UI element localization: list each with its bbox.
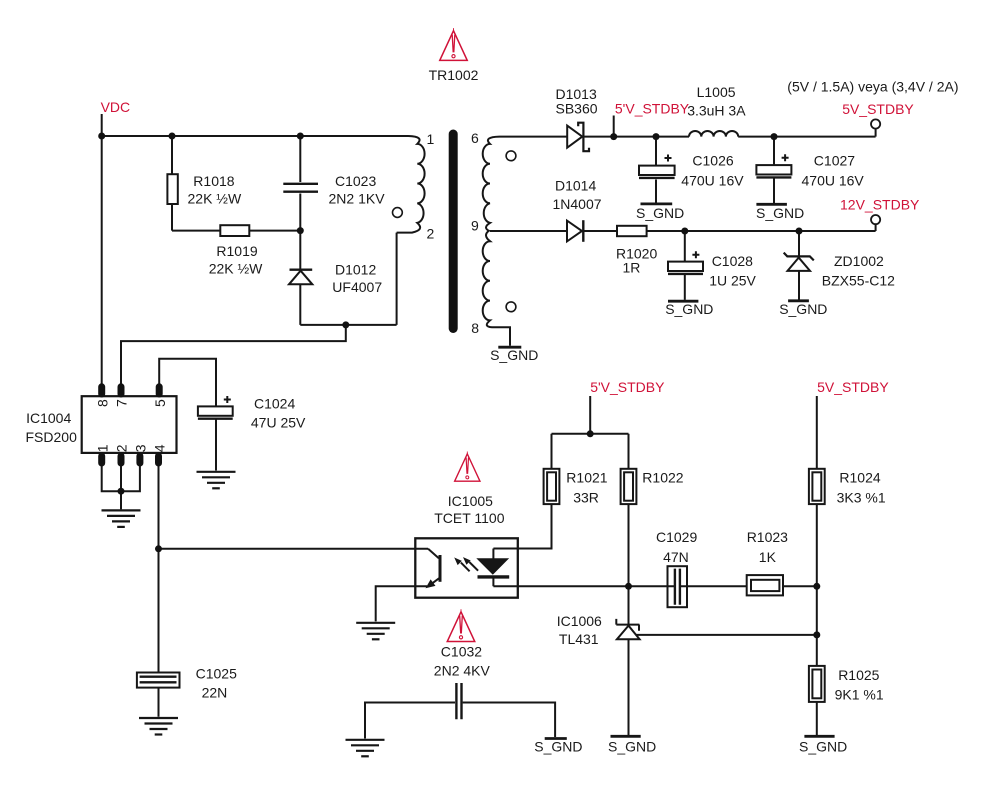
svg-text:4: 4 (151, 444, 167, 452)
svg-text:(5V / 1.5A) veya (3,4V / 2A): (5V / 1.5A) veya (3,4V / 2A) (787, 79, 958, 95)
svg-text:SB360: SB360 (556, 100, 598, 116)
svg-text:C1024: C1024 (254, 396, 295, 412)
svg-text:1: 1 (427, 131, 435, 147)
svg-text:TCET 1100: TCET 1100 (434, 510, 505, 526)
svg-text:5: 5 (152, 399, 168, 407)
svg-text:L1005: L1005 (697, 84, 736, 100)
svg-text:S_GND: S_GND (608, 739, 656, 755)
svg-text:5V_STDBY: 5V_STDBY (817, 379, 889, 395)
svg-text:R1023: R1023 (747, 529, 788, 545)
svg-text:D1014: D1014 (555, 178, 596, 194)
svg-text:1R: 1R (623, 260, 641, 276)
svg-text:S_GND: S_GND (490, 347, 538, 363)
svg-text:R1025: R1025 (838, 667, 879, 683)
svg-text:22N: 22N (202, 685, 228, 701)
svg-text:470U 16V: 470U 16V (802, 173, 865, 189)
svg-text:22K ½W: 22K ½W (188, 191, 242, 207)
svg-text:5V_STDBY: 5V_STDBY (842, 101, 914, 117)
svg-text:R1024: R1024 (839, 470, 880, 486)
svg-text:S_GND: S_GND (636, 205, 684, 221)
svg-text:2N2 4KV: 2N2 4KV (434, 662, 491, 678)
svg-text:22K ½W: 22K ½W (209, 261, 263, 277)
svg-text:1K: 1K (759, 549, 777, 565)
svg-text:TR1002: TR1002 (429, 67, 479, 83)
svg-text:2: 2 (114, 444, 130, 452)
svg-text:S_GND: S_GND (799, 739, 847, 755)
svg-text:47U 25V: 47U 25V (251, 415, 306, 431)
svg-text:C1026: C1026 (692, 153, 733, 169)
svg-text:8: 8 (471, 320, 479, 336)
svg-text:S_GND: S_GND (534, 739, 582, 755)
svg-text:3: 3 (133, 444, 149, 452)
svg-text:C1027: C1027 (814, 153, 855, 169)
svg-text:9K1 %1: 9K1 %1 (835, 687, 884, 703)
svg-text:UF4007: UF4007 (332, 279, 382, 295)
svg-text:9: 9 (471, 218, 479, 234)
svg-text:R1019: R1019 (216, 243, 257, 259)
svg-text:BZX55-C12: BZX55-C12 (822, 273, 895, 289)
svg-text:C1023: C1023 (335, 173, 376, 189)
svg-text:S_GND: S_GND (779, 301, 827, 317)
svg-text:8: 8 (94, 399, 110, 407)
svg-text:1N4007: 1N4007 (553, 196, 602, 212)
svg-text:C1025: C1025 (196, 666, 237, 682)
svg-text:ZD1002: ZD1002 (834, 253, 884, 269)
svg-text:2: 2 (427, 226, 435, 242)
svg-text:5'V_STDBY: 5'V_STDBY (590, 379, 665, 395)
svg-text:C1032: C1032 (441, 643, 482, 659)
svg-text:S_GND: S_GND (756, 205, 804, 221)
svg-text:3.3uH 3A: 3.3uH 3A (687, 103, 746, 119)
svg-text:C1029: C1029 (656, 529, 697, 545)
svg-text:TL431: TL431 (559, 631, 599, 647)
svg-text:D1012: D1012 (335, 262, 376, 278)
svg-text:1U 25V: 1U 25V (709, 273, 756, 289)
svg-text:IC1004: IC1004 (26, 410, 71, 426)
svg-text:5'V_STDBY: 5'V_STDBY (615, 101, 690, 117)
svg-text:VDC: VDC (101, 99, 131, 115)
svg-text:FSD200: FSD200 (26, 429, 78, 445)
svg-text:12V_STDBY: 12V_STDBY (840, 196, 920, 212)
svg-text:3K3 %1: 3K3 %1 (837, 490, 886, 506)
svg-text:470U 16V: 470U 16V (681, 173, 744, 189)
svg-text:6: 6 (471, 130, 479, 146)
svg-text:1: 1 (94, 444, 110, 452)
svg-text:33R: 33R (573, 490, 599, 506)
svg-text:IC1005: IC1005 (448, 493, 493, 509)
svg-text:R1021: R1021 (566, 470, 607, 486)
svg-text:S_GND: S_GND (665, 301, 713, 317)
svg-text:7: 7 (114, 399, 130, 407)
svg-text:IC1006: IC1006 (557, 613, 602, 629)
svg-text:47N: 47N (663, 549, 689, 565)
svg-text:R1022: R1022 (642, 470, 683, 486)
svg-text:C1028: C1028 (712, 253, 753, 269)
svg-text:R1018: R1018 (193, 173, 234, 189)
svg-text:2N2 1KV: 2N2 1KV (329, 191, 386, 207)
